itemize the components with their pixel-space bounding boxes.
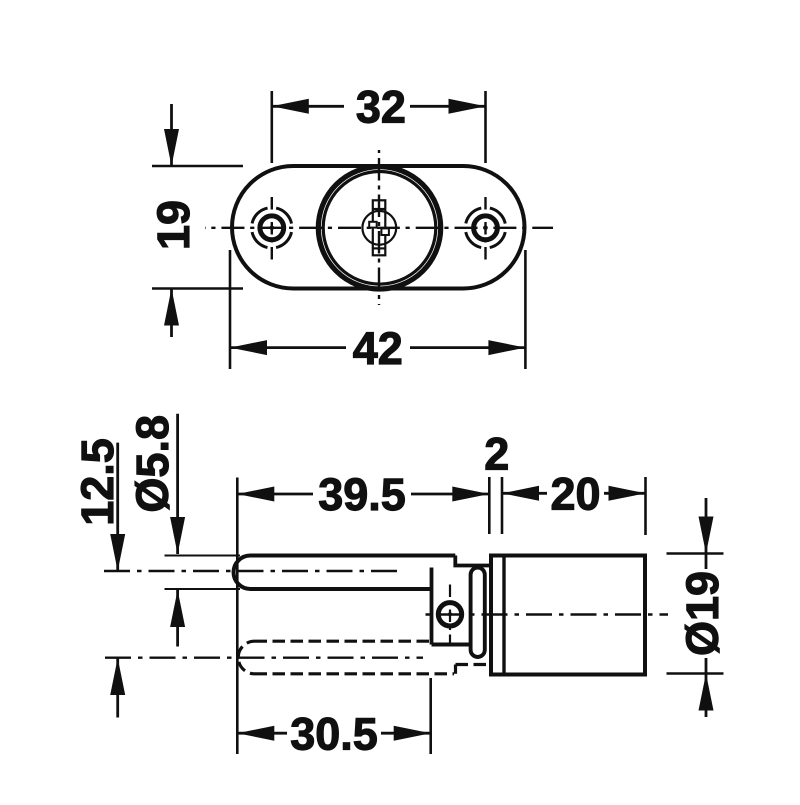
dimension diameter 5.8 arrows [170, 414, 185, 647]
svg-text:2: 2 [484, 429, 509, 480]
cylinder inner circle [323, 172, 436, 285]
dimension diameter 19 text [677, 571, 728, 656]
key plug circle [362, 211, 396, 245]
dimension 12.5 arrows [110, 443, 125, 718]
dimension 30.5 line and arrows [237, 726, 430, 741]
dimension 32 text [356, 82, 406, 133]
bracket hole vertical centerline [449, 585, 451, 647]
dimension 20 text [550, 469, 600, 520]
svg-text:42: 42 [353, 323, 403, 374]
top pin thin extension lines [165, 556, 241, 590]
flange capsule [471, 568, 485, 658]
side view body centerline [425, 613, 668, 615]
step from pin to body [455, 556, 491, 566]
svg-text:Ø5.8: Ø5.8 [127, 415, 178, 513]
side view lower pin centerline [105, 657, 423, 659]
right screw hole dashed counterbore circle [465, 208, 505, 248]
dimension diameter 19 arrows [699, 498, 714, 717]
dimension 12.5 text [72, 438, 123, 526]
right screw hole vertical centerline [484, 197, 486, 260]
slider bracket outline [432, 568, 471, 645]
dimension 30.5 right extension line [429, 678, 432, 754]
left screw hole ring [260, 216, 284, 240]
svg-text:30.5: 30.5 [290, 708, 378, 759]
top pin thick outline [234, 556, 456, 590]
dimension 19 text [148, 200, 199, 250]
svg-text:39.5: 39.5 [318, 469, 406, 520]
left screw hole dashed counterbore circle [252, 208, 292, 248]
right screw hole ring [474, 216, 498, 240]
dimension 30.5 text [290, 708, 378, 759]
cylinder outer circle [318, 167, 440, 289]
lower pin hidden rounded cap [238, 641, 254, 674]
lower pin hidden step [456, 665, 490, 674]
svg-text:Ø19: Ø19 [677, 571, 728, 656]
dimension diameter 5.8 text [127, 415, 178, 513]
cylinder body inner line [502, 556, 505, 675]
lower pin hidden top edge [255, 640, 433, 643]
left screw hole vertical centerline [271, 197, 273, 260]
keyway left notch [369, 222, 377, 228]
cylinder body rectangle [491, 556, 645, 675]
lower pin hidden bottom edge [255, 672, 455, 675]
plate outline (obround mounting plate) [232, 166, 525, 289]
keyway right notch [381, 228, 389, 235]
dimension 19 arrows [164, 104, 179, 337]
dimension 19 extension lines [152, 166, 243, 289]
svg-text:32: 32 [356, 82, 406, 133]
keyway rectangle [373, 200, 386, 255]
side view top pin centerline [104, 570, 403, 572]
bracket hole [438, 603, 461, 626]
dimension 32 line and arrows [272, 99, 486, 114]
top view horizontal centerline [205, 227, 553, 229]
dimension 42 extension lines [230, 250, 525, 369]
top view vertical centerline [378, 150, 380, 305]
dimension 42 line and arrows [230, 340, 525, 355]
dimension 39.5 text [318, 469, 406, 520]
dimension 39.5 left extension line [236, 478, 239, 755]
svg-text:12.5: 12.5 [72, 438, 123, 526]
dimension 42 text [353, 323, 403, 374]
dimension 2 extension lines [489, 477, 502, 534]
svg-text:20: 20 [550, 469, 600, 520]
dimension 2 text [484, 429, 509, 480]
dimension 20 line and arrows [502, 486, 646, 501]
dimension 20 right extension line [644, 477, 647, 535]
dimension diameter 19 extension lines [667, 554, 724, 674]
dimension 39.5 line and arrows [237, 487, 489, 502]
svg-text:19: 19 [148, 200, 199, 250]
dimension 32 extension lines [272, 91, 486, 163]
